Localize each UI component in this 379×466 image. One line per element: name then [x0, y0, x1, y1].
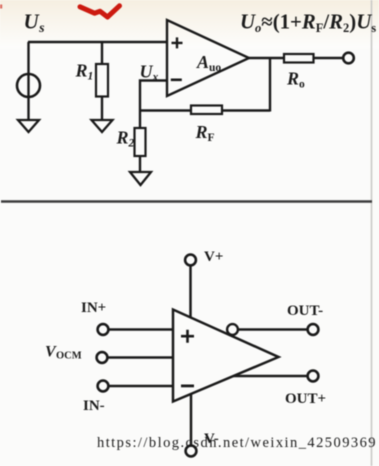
- ground (under source): [18, 120, 39, 132]
- wire: feedback right segment: [222, 109, 270, 111]
- wire: feedback left segment: [140, 109, 191, 111]
- op-amp minus input mark: [171, 79, 182, 82]
- wire: minus input to Ux node: [140, 81, 167, 111]
- ground (under R2): [130, 172, 151, 185]
- op-amp plus input mark: [172, 37, 183, 48]
- plus input mark: [181, 330, 194, 343]
- wire: OUT-: [238, 328, 308, 331]
- op-amp (fully differential) triangle: [173, 310, 279, 402]
- svg-text:OUT+: OUT+: [285, 391, 326, 407]
- resistor Ro: [284, 54, 314, 63]
- wire: R2 bottom lead: [139, 156, 141, 172]
- wire: R1 top lead: [101, 42, 103, 64]
- wire: top horizontal Us to op-amp + input: [28, 41, 167, 43]
- wire: source vertical lead through circle: [27, 42, 29, 120]
- svg-text:V+: V+: [204, 249, 223, 265]
- terminal OUT-: [308, 324, 319, 335]
- op-amp A_uo triangle: [167, 20, 249, 96]
- svg-text:Uo≈(1+RF/R2)Us: Uo≈(1+RF/R2)Us: [240, 11, 376, 36]
- right border line: [371, 0, 373, 466]
- inverting output bubble: [227, 324, 238, 335]
- terminal V+ : circle, wire, label: [185, 255, 196, 266]
- wire: feedback vertical from output: [269, 58, 271, 112]
- resistor RF: [191, 106, 222, 115]
- terminal VOCM : circle, wire, label: [97, 352, 108, 363]
- wire: R2 top lead: [139, 111, 141, 129]
- svg-text:OCM: OCM: [56, 351, 82, 362]
- resistor R1: [96, 64, 108, 97]
- terminal V- : wire, circle, label: [190, 394, 193, 446]
- minus input mark: [181, 384, 194, 387]
- divider line: [1, 200, 372, 203]
- terminal IN+ : circle, wire, label: [98, 324, 109, 335]
- svg-text:https://blog.csdn.net/weixin_4: https://blog.csdn.net/weixin_42509369: [97, 435, 377, 451]
- resistor R2: [135, 128, 146, 156]
- terminal Uo: [343, 53, 354, 64]
- red speck at left edge: [0, 5, 2, 9]
- wire: output horizontal: [249, 57, 284, 59]
- svg-text:OUT-: OUT-: [287, 303, 323, 319]
- svg-text:IN-: IN-: [83, 398, 105, 414]
- voltage source Us circle: [17, 74, 40, 97]
- red annotation check mark: [80, 6, 120, 17]
- wire: OUT+: [234, 375, 308, 378]
- wire: R1 bottom lead: [101, 97, 103, 121]
- svg-text:IN+: IN+: [81, 300, 106, 316]
- ground (under R1): [92, 120, 113, 132]
- terminal IN- : circle, wire, label: [98, 381, 109, 392]
- terminal OUT+: [308, 371, 319, 382]
- wire: to output terminal: [314, 57, 344, 59]
